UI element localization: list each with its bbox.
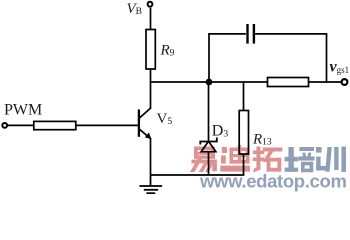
node junction dot: [206, 79, 213, 86]
wire R9 to collector: [150, 69, 152, 109]
char 培: [285, 147, 315, 172]
transistor V5: [139, 108, 152, 140]
wire resistor to vgs1 terminal: [309, 81, 342, 83]
svg-text:PWM: PWM: [4, 102, 42, 119]
wire cap loop left vertical: [208, 34, 210, 82]
wire R13 to bottom rail: [243, 154, 245, 175]
resistor base (horizontal): [34, 121, 76, 129]
svg-text:www.edatop.com: www.edatop.com: [199, 170, 347, 191]
wire resistor to base: [76, 124, 139, 126]
wire emitter down: [150, 139, 152, 176]
wire diode to bottom rail: [208, 152, 210, 175]
svg-text:R13: R13: [252, 131, 272, 147]
watermark logo 易迪拓 (red blocks): [190, 145, 282, 173]
wire VB to R9: [150, 8, 152, 30]
wire PWM to base resistor: [8, 124, 34, 126]
svg-text:V5: V5: [157, 111, 173, 127]
char 迪: [220, 145, 250, 172]
svg-text:vgs1: vgs1: [330, 59, 350, 76]
wire cap loop top right: [255, 33, 327, 35]
resistor horizontal (gate resistor): [268, 78, 309, 87]
resistor R9: [146, 30, 155, 70]
wire collector node to Cgd loop: [150, 81, 268, 83]
wire bottom rail: [151, 174, 245, 176]
diode D3 (zener): [200, 138, 217, 152]
svg-text:R9: R9: [160, 43, 175, 59]
wire junction to diode: [208, 82, 210, 141]
wire top rail to R13: [243, 82, 245, 111]
node VB terminal: [148, 2, 153, 7]
svg-text:VB: VB: [127, 1, 143, 17]
node vgs1 terminal: [342, 79, 348, 85]
node PWM terminal: [2, 123, 7, 128]
resistor R13: [239, 111, 248, 155]
ground: [139, 175, 162, 193]
wire cap loop right vertical: [326, 34, 328, 83]
wire cap loop top left: [208, 33, 246, 35]
char 训: [316, 147, 346, 173]
char 拓: [253, 147, 282, 173]
watermark logo 培训 (blue blocks): [285, 147, 346, 173]
char 易: [190, 147, 217, 173]
capacitor C1: [248, 24, 254, 44]
svg-text:D3: D3: [212, 123, 229, 140]
